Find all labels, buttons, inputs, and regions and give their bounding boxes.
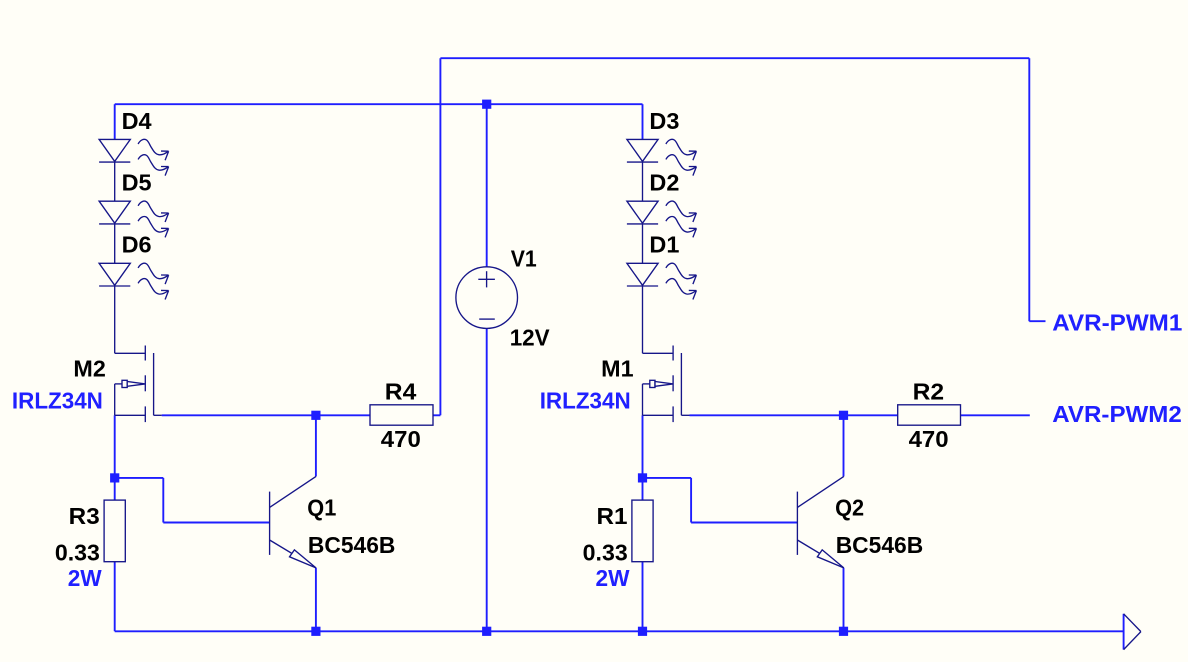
wire Q1 collector [315,415,317,476]
svg-text:R4: R4 [385,379,417,405]
voltage source V1 [456,267,518,329]
wire Q2 emitter [843,568,845,631]
svg-text:Q1: Q1 [307,494,336,520]
wire M1 gate to R2 (node with Q2 collector) [690,414,898,416]
svg-text:AVR-PWM1: AVR-PWM1 [1052,310,1182,336]
MOSFET M2 (IRLZ34N) [115,346,162,423]
node rail Q2 emitter [839,627,848,636]
svg-text:12V: 12V [510,324,551,350]
resistor R4 [370,405,433,425]
wire R2 right lead to AVR-PWM2 [961,414,1030,416]
wire R3 bottom lead [114,562,116,632]
wire top horizontal (AVR-PWM1 to R4) [440,57,1029,59]
wire V1 top [486,104,488,267]
svg-text:M1: M1 [601,355,634,381]
LED D2 [627,201,697,237]
svg-text:Q2: Q2 [835,494,864,520]
wire sense node to Q1 base h2 [163,522,269,524]
wire V1 bottom [486,328,488,631]
svg-text:470: 470 [909,426,949,452]
LED D5 [99,201,169,237]
svg-text:D5: D5 [122,170,152,196]
LED D1 [627,263,697,299]
LED D6 [99,263,169,299]
wire M2 gate to R4 (node with Q1 collector) [162,414,370,416]
wire R1 bottom lead [642,562,644,632]
wire second horizontal (V+ rail) [115,103,643,105]
wire R4 right lead [433,414,440,416]
wire right LED chain segments [642,139,644,353]
svg-text:2W: 2W [68,565,102,591]
svg-text:2W: 2W [596,565,630,591]
wire left LED chain top [114,104,116,139]
wire sense node to Q2 base h2 [691,522,797,524]
net flag arrow (rail right end) [1124,614,1141,650]
svg-text:R3: R3 [69,503,100,529]
node V+ / V1 [482,100,491,109]
node rail R1 [638,627,647,636]
resistor R3 [104,500,125,562]
wire ground rail [115,630,1124,632]
svg-text:D2: D2 [649,170,679,196]
wire Q2 collector [843,415,845,476]
resistor R1 [632,500,653,562]
svg-text:IRLZ34N: IRLZ34N [12,387,103,413]
wire R1 top lead [642,478,644,500]
svg-text:V1: V1 [511,246,537,272]
node gate-R4-Q1 collector [311,411,320,420]
wire AVR-PWM1 vertical [1028,58,1030,321]
wire left LED chain segments [114,139,116,353]
svg-text:R2: R2 [913,379,945,405]
svg-text:IRLZ34N: IRLZ34N [540,387,631,413]
wire M1 source down [642,415,644,478]
wire sense node to Q1 base v [162,478,164,523]
wire sense node to Q2 base h1 [643,477,692,479]
transistor Q2 (BC546B) [797,476,843,568]
wire M2 source down [114,415,116,478]
LED D3 [627,139,697,175]
svg-text:BC546B: BC546B [308,532,396,558]
LED D4 [99,139,169,175]
svg-text:D1: D1 [649,232,679,258]
transistor Q1 (BC546B) [270,476,316,568]
svg-text:0.33: 0.33 [583,539,628,565]
node M2 source sense [110,473,119,482]
node rail Q1 emitter [311,627,320,636]
svg-text:AVR-PWM2: AVR-PWM2 [1052,401,1182,427]
node M1 source sense [638,473,647,482]
node rail V1- [482,627,491,636]
svg-text:470: 470 [381,426,421,452]
wire AVR-PWM1 stub [1029,320,1045,322]
wire R3 top lead [114,478,116,500]
wire Q1 emitter [315,568,317,631]
node gate-R2-Q2 collector [839,411,848,420]
svg-text:M2: M2 [73,355,105,381]
resistor R2 [898,405,961,425]
svg-text:BC546B: BC546B [836,532,924,558]
svg-text:D3: D3 [649,108,679,134]
wire R4 right vertical [439,58,441,415]
MOSFET M1 (IRLZ34N) [643,346,690,423]
wire sense node to Q2 base v [690,478,692,523]
wire right LED chain top [642,104,644,139]
svg-text:R1: R1 [597,503,628,529]
svg-text:D6: D6 [122,232,152,258]
wire sense node to Q1 base h1 [115,477,164,479]
svg-text:0.33: 0.33 [55,539,100,565]
svg-text:D4: D4 [122,108,152,134]
